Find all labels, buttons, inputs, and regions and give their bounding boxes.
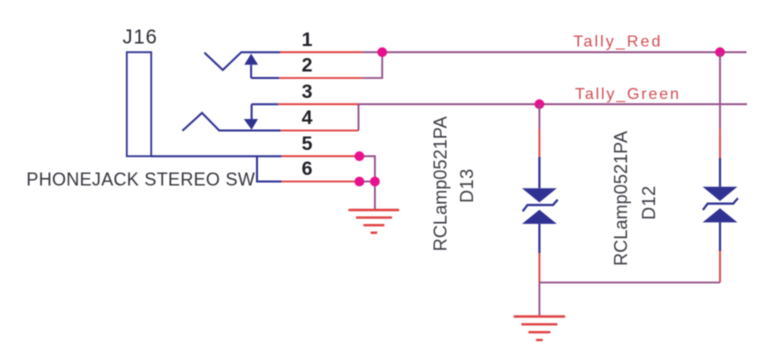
D12 lead top (blue) xyxy=(719,158,721,187)
wire pin6 link xyxy=(359,181,375,183)
svg-text:4: 4 xyxy=(302,107,313,129)
svg-text:J16: J16 xyxy=(123,26,158,48)
junction dot Tally_Green / D13 xyxy=(535,99,545,109)
svg-text:2: 2 xyxy=(302,55,313,77)
wire D13 top (purple) xyxy=(538,104,540,129)
wire D12 top (purple) xyxy=(719,52,721,128)
wire net Tally_Green xyxy=(359,103,748,105)
svg-text:3: 3 xyxy=(302,81,313,103)
svg-text:PHONEJACK STEREO SW: PHONEJACK STEREO SW xyxy=(26,170,255,190)
ground (jack sleeve) xyxy=(348,210,399,233)
switch arrow down (pin3 to pin4) xyxy=(251,104,253,119)
D13 lead bottom (blue) xyxy=(538,224,540,253)
D13 pin top (red) xyxy=(538,129,540,157)
sleeve wire from body to pins 5/6 (blue) xyxy=(151,155,282,157)
svg-text:Tally_Green: Tally_Green xyxy=(575,86,681,103)
wire bottom bus D13-D12 xyxy=(539,282,720,284)
pin 5 stub (red) xyxy=(282,155,360,157)
pin 4 stub (red) xyxy=(281,130,359,132)
svg-text:5: 5 xyxy=(302,133,313,155)
D13 lead top (blue) xyxy=(538,157,540,188)
wire pin4 riser xyxy=(358,104,360,130)
D13 pin bottom (red) xyxy=(538,253,540,283)
wire net Tally_Red xyxy=(363,51,747,53)
svg-text:RCLamp0521PA: RCLamp0521PA xyxy=(431,116,451,251)
TVS diode D12 xyxy=(703,187,738,223)
pin 4 ring contact (^) xyxy=(182,113,280,131)
switch arrow up (pin2 to pin1) xyxy=(250,65,252,78)
junction dot Tally_Red / D12 xyxy=(715,47,725,57)
pin 3 lead (blue) xyxy=(252,103,279,105)
pin 3 stub (red) xyxy=(278,103,358,105)
D12 pin top (red) xyxy=(719,129,721,158)
svg-text:1: 1 xyxy=(302,29,313,51)
svg-text:D13: D13 xyxy=(457,168,477,203)
D12 pin bottom (red) xyxy=(719,251,721,283)
wire to ground 2 xyxy=(538,283,540,317)
D12 lead bottom (blue) xyxy=(719,222,721,251)
pin 6 stub (red) xyxy=(282,181,360,183)
junction dot pin5 xyxy=(355,151,365,161)
pin 1 tip contact (V) xyxy=(204,52,280,70)
ground (TVS common) xyxy=(514,317,565,341)
pin 2 lead (blue) xyxy=(251,77,279,79)
pin 2 stub (red) xyxy=(279,77,363,79)
svg-text:D12: D12 xyxy=(639,185,659,220)
svg-text:RCLamp0521PA: RCLamp0521PA xyxy=(611,131,631,266)
connector J16 body xyxy=(127,52,151,156)
wire pin5 to ground xyxy=(359,156,375,210)
junction dot pin1/pin2 xyxy=(377,47,387,57)
junction dot pin6/vertical xyxy=(370,177,380,187)
svg-text:6: 6 xyxy=(302,158,313,180)
pin 1 stub (red) xyxy=(280,51,363,53)
svg-text:Tally_Red: Tally_Red xyxy=(573,34,662,51)
TVS diode D13 xyxy=(522,188,558,224)
junction dot pin6 xyxy=(355,177,365,187)
wire pin2 riser xyxy=(363,52,383,78)
